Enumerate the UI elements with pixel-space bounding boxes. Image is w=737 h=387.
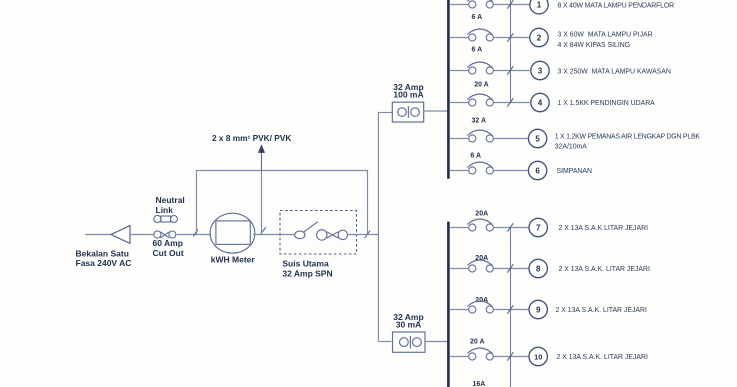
svg-text:2 X 13A S.A.K. LITAR JEJARI: 2 X 13A S.A.K. LITAR JEJARI	[557, 354, 648, 361]
slash: conductor mark after meter	[261, 227, 266, 234]
MCB circuit 5	[450, 130, 529, 142]
switch contact (open blade)	[295, 222, 318, 239]
svg-text:7: 7	[536, 223, 541, 232]
svg-text:3 X 60W MATA LAMPU PIJAR: 3 X 60W MATA LAMPU PIJAR	[558, 32, 653, 39]
svg-text:Cut Out: Cut Out	[153, 248, 184, 258]
svg-text:Fasa 240V AC: Fasa 240V AC	[76, 258, 132, 268]
svg-text:6 A: 6 A	[472, 47, 483, 54]
feeder arrow: 2 x 8 mm2 PVK/PVK	[261, 152, 263, 170]
fuse: 60 Amp Cut Out	[154, 231, 176, 238]
MCB circuit 8	[450, 260, 529, 273]
svg-text:kWH Meter: kWH Meter	[211, 254, 256, 264]
wire: main switch to RCD bus	[348, 234, 379, 236]
slash: conductor mark before meter	[193, 229, 198, 236]
svg-text:2 X 13A S.A.K. LITAR JEJARI: 2 X 13A S.A.K. LITAR JEJARI	[556, 307, 647, 314]
kWH Meter	[210, 213, 255, 253]
MCB circuit 1	[450, 0, 530, 9]
circuit number 1	[530, 0, 548, 14]
svg-text:6 A: 6 A	[470, 152, 481, 159]
svg-text:6 A: 6 A	[472, 14, 483, 21]
svg-text:2 X 13A S.A.K LITAR JEJARI: 2 X 13A S.A.K LITAR JEJARI	[559, 225, 649, 232]
neutral riser: bottom section	[510, 228, 512, 387]
main switch enclosure (dashed): Suis Utama	[280, 211, 357, 255]
MCB circuit 6	[450, 162, 529, 174]
MCB circuit 2	[450, 29, 530, 42]
svg-text:32 A: 32 A	[472, 117, 487, 124]
neutral riser: top section	[510, 0, 512, 103]
MCB circuit 9	[450, 301, 529, 314]
svg-text:9: 9	[536, 305, 541, 314]
circuit number 2	[530, 28, 548, 46]
MCB circuit 3	[450, 62, 530, 75]
circuit number 5	[528, 129, 546, 147]
wire: stub to RCD U2 input	[378, 341, 392, 343]
circuit number 7	[529, 218, 547, 236]
svg-text:32A/10mA: 32A/10mA	[555, 143, 588, 150]
svg-text:5: 5	[535, 134, 540, 143]
wire: RCD U2 output to bottom busbar	[425, 341, 448, 343]
svg-text:10: 10	[534, 352, 542, 361]
wire: incoming supply lead	[85, 234, 111, 236]
slash: conductor mark before busbar drop	[365, 231, 370, 238]
busbar: top section	[447, 0, 450, 179]
svg-text:30 mA: 30 mA	[396, 320, 422, 330]
wire: vertical RCD feed bus	[377, 113, 379, 342]
svg-text:6: 6	[535, 166, 540, 175]
circuit number 10	[529, 347, 547, 365]
circuit number 3	[531, 61, 549, 79]
fuse inside main switch	[317, 230, 348, 240]
wire: RCD U1 output to top busbar	[424, 110, 448, 112]
circuit number 8	[529, 259, 547, 277]
svg-text:20A: 20A	[475, 211, 488, 218]
svg-text:2: 2	[537, 33, 542, 42]
wire: triangle to cut-out	[130, 234, 154, 236]
svg-text:Suis Utama: Suis Utama	[282, 259, 329, 269]
svg-text:3 X 250W MATA LAMPU KAWASAN: 3 X 250W MATA LAMPU KAWASAN	[558, 68, 671, 75]
MCB circuit 10	[450, 348, 529, 361]
svg-text:4 X 84W KIPAS SILING: 4 X 84W KIPAS SILING	[558, 42, 631, 49]
circuit number 4	[531, 93, 549, 111]
MCB circuit 7	[450, 219, 529, 232]
svg-text:32 Amp SPN: 32 Amp SPN	[282, 269, 332, 279]
svg-text:2 X 13A S.A.K. LITAR JEJARI: 2 X 13A S.A.K. LITAR JEJARI	[559, 266, 650, 273]
svg-text:1: 1	[537, 1, 542, 10]
MCB circuit 4	[450, 94, 530, 107]
svg-text:60 Amp: 60 Amp	[153, 238, 183, 248]
svg-text:4: 4	[538, 98, 543, 107]
svg-text:16A: 16A	[473, 381, 486, 387]
svg-text:2 x 8 mm¹ PVK/ PVK: 2 x 8 mm¹ PVK/ PVK	[212, 133, 291, 143]
wire: cut-out to kWH meter	[177, 234, 211, 236]
svg-text:3: 3	[538, 66, 543, 75]
svg-text:100 mA: 100 mA	[393, 90, 423, 100]
svg-text:1 X 1.5KK PENDINGIN UDARA: 1 X 1.5KK PENDINGIN UDARA	[558, 100, 656, 107]
svg-text:Bekalan Satu: Bekalan Satu	[76, 249, 129, 259]
supply source symbol (triangle)	[111, 226, 130, 244]
svg-text:1 X 1.2KW PEMANAS AIR LENGKAP: 1 X 1.2KW PEMANAS AIR LENGKAP DGN PLBK	[555, 134, 701, 141]
svg-text:Link: Link	[156, 205, 174, 215]
svg-text:20 A: 20 A	[474, 82, 489, 89]
svg-text:Neutral: Neutral	[156, 195, 185, 205]
neutral link symbol	[154, 215, 178, 222]
svg-text:8 X 40W MATA LAMPU PENDARFLOR: 8 X 40W MATA LAMPU PENDARFLOR	[558, 2, 675, 9]
wire: meter to main switch	[253, 234, 295, 236]
circuit number 6	[528, 161, 546, 179]
svg-text:SIMPANAN: SIMPANAN	[557, 168, 593, 175]
RCD U2: 32 Amp 30 mA	[393, 332, 426, 352]
RCD U1: 32 Amp 100 mA	[392, 102, 423, 122]
svg-text:8: 8	[536, 264, 541, 273]
wire: stub to RCD U1 input	[378, 112, 393, 114]
busbar: bottom section	[447, 222, 450, 387]
wire: meter bypass loop (top horizontal with end risers)	[197, 171, 368, 235]
circuit number 9	[529, 300, 547, 318]
wire: middle riser at meter output	[261, 171, 263, 235]
svg-text:20 A: 20 A	[470, 339, 485, 346]
